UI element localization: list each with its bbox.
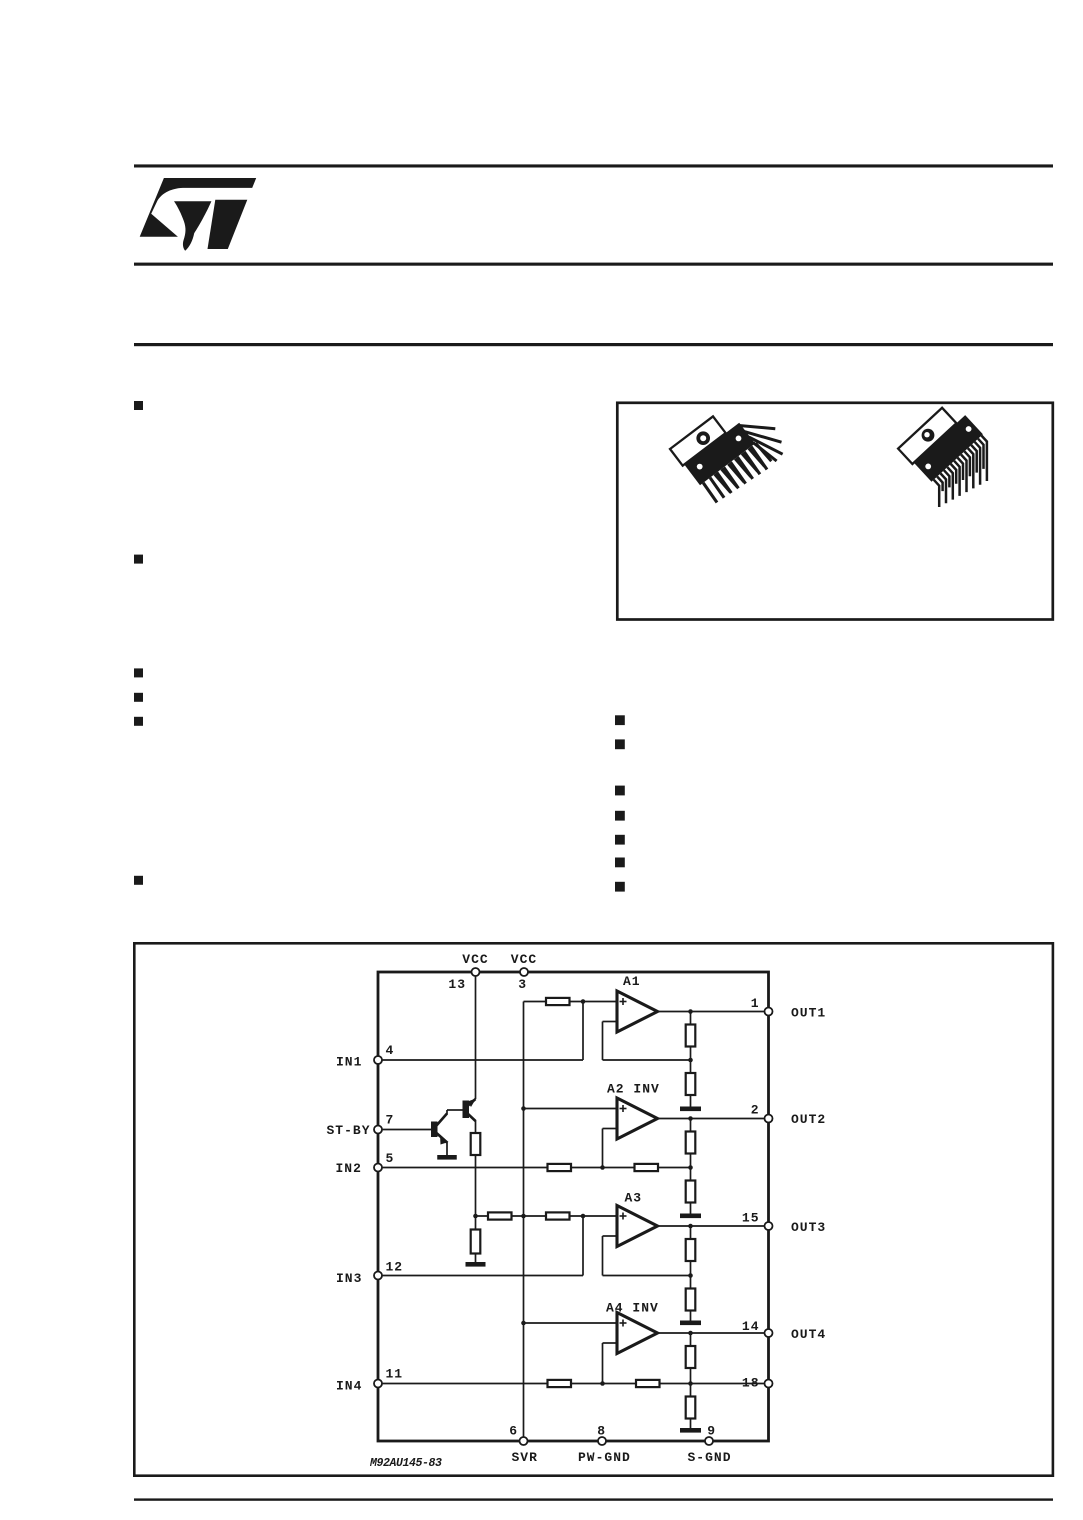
ground Q1 emitter bbox=[437, 1155, 457, 1160]
wire A3 divider bbox=[690, 1226, 692, 1321]
node OUT3 divider top bbox=[688, 1224, 693, 1229]
resistor A1 input bias bbox=[546, 998, 570, 1005]
svg-text:9: 9 bbox=[707, 1424, 716, 1439]
wire Q2 collector bbox=[468, 1114, 476, 1122]
bullet right 7 bbox=[615, 882, 625, 892]
svg-text:IN4: IN4 bbox=[336, 1379, 362, 1394]
terminal SVR pin 6 bbox=[520, 1437, 528, 1445]
wire SVR rail bbox=[523, 1002, 525, 1442]
svg-text:OUT3: OUT3 bbox=[791, 1220, 826, 1235]
terminal OUT2 pin 2 bbox=[765, 1115, 773, 1123]
svg-text:IN2: IN2 bbox=[336, 1161, 362, 1176]
node A2 feedback tap bbox=[688, 1165, 693, 1170]
wire Q2 collector drop bbox=[475, 1120, 477, 1133]
svg-text:PW-GND: PW-GND bbox=[578, 1450, 631, 1465]
terminal IN4 pin 11 bbox=[374, 1380, 382, 1388]
node SVR to A4 bbox=[521, 1321, 526, 1326]
svg-text:VCC: VCC bbox=[511, 952, 537, 967]
svg-text:12: 12 bbox=[386, 1260, 404, 1275]
rule bottom bbox=[134, 1498, 1053, 1500]
resistor A2 feedback upper bbox=[686, 1132, 696, 1154]
terminal VCC pin 3 bbox=[520, 968, 528, 976]
svg-text:VCC: VCC bbox=[462, 952, 488, 967]
svg-text:A2 INV: A2 INV bbox=[607, 1082, 660, 1097]
node A3 feedback tap bbox=[688, 1273, 693, 1278]
terminal PW-GND pin 8 bbox=[598, 1437, 606, 1445]
op-amp A2 bbox=[617, 1098, 658, 1139]
wire IN1 row bbox=[378, 1059, 583, 1061]
wire A4 noninverting row bbox=[524, 1322, 618, 1324]
wire A4 inverting drop bbox=[602, 1343, 604, 1384]
resistor A2 feedback in bbox=[635, 1164, 659, 1171]
resistor bias lower bbox=[471, 1230, 481, 1254]
ground A4 divider bbox=[680, 1428, 701, 1433]
svg-text:11: 11 bbox=[386, 1367, 404, 1382]
wire A3 inverting drop bbox=[602, 1236, 604, 1276]
terminal IN3 pin 12 bbox=[374, 1272, 382, 1280]
resistor A1 feedback lower bbox=[686, 1073, 696, 1095]
wire IN2 row bbox=[378, 1167, 691, 1169]
wire OUT4 row bbox=[658, 1332, 769, 1334]
svg-text:IN3: IN3 bbox=[336, 1271, 362, 1286]
op-amp A1 bbox=[617, 991, 658, 1032]
bullet right 1 bbox=[615, 715, 625, 725]
resistor IN2 series bbox=[548, 1164, 572, 1171]
resistor A2 feedback lower bbox=[686, 1181, 696, 1203]
schematic frame bbox=[134, 943, 1053, 1475]
wire VCC pin13 rail bbox=[475, 972, 477, 1099]
wire Q1 emitter bbox=[446, 1142, 448, 1155]
ST logo T stroke bbox=[208, 200, 248, 249]
wire A4 divider bbox=[690, 1333, 692, 1428]
node OUT4 divider top bbox=[688, 1331, 693, 1336]
bullet left 4 bbox=[134, 693, 143, 702]
package figure box bbox=[617, 403, 1053, 620]
svg-text:14: 14 bbox=[742, 1319, 760, 1334]
ST logo swoosh S bbox=[140, 178, 257, 237]
svg-text:ST-BY: ST-BY bbox=[327, 1123, 371, 1138]
node A1 feedback tap bbox=[688, 1058, 693, 1063]
op-amp A4 bbox=[617, 1313, 658, 1354]
ground bias chain bbox=[466, 1262, 486, 1267]
transistor Q2 bbox=[463, 1101, 470, 1119]
wire bias resistor drop bbox=[475, 1216, 477, 1230]
bullet right 6 bbox=[615, 858, 625, 868]
svg-text:18: 18 bbox=[742, 1376, 760, 1391]
bullet left 2 bbox=[134, 555, 143, 564]
svg-text:OUT4: OUT4 bbox=[791, 1327, 826, 1342]
wire ST-BY base bbox=[378, 1129, 431, 1131]
ground A2 divider bbox=[680, 1214, 701, 1219]
rule top bbox=[134, 164, 1053, 167]
resistor A4 feedback lower bbox=[686, 1397, 696, 1419]
wire A4 inverting stub bbox=[603, 1342, 619, 1344]
wire OUT3 row bbox=[658, 1225, 769, 1227]
svg-text:2: 2 bbox=[751, 1103, 760, 1118]
wire IN3 riser bbox=[582, 1216, 584, 1276]
wire A2 inverting stub bbox=[603, 1128, 619, 1130]
wire A3 inverting stub bbox=[603, 1235, 619, 1237]
wire A2 inverting drop bbox=[602, 1129, 604, 1168]
node OUT2 divider top bbox=[688, 1116, 693, 1121]
resistor A3 feedback upper bbox=[686, 1239, 696, 1261]
svg-text:SVR: SVR bbox=[512, 1450, 538, 1465]
svg-text:1: 1 bbox=[751, 996, 760, 1011]
terminal OUT4 pin 14 bbox=[765, 1329, 773, 1337]
node A4 feedback tap bbox=[688, 1381, 693, 1386]
Multiwatt15 package bent pins bbox=[898, 408, 987, 507]
svg-text:M92AU145-83: M92AU145-83 bbox=[369, 1457, 442, 1470]
wire OUT2 row bbox=[658, 1118, 769, 1120]
svg-text:A3: A3 bbox=[625, 1191, 643, 1206]
node SVR to A2 bbox=[521, 1106, 526, 1111]
resistor bias to SVR bbox=[488, 1212, 512, 1219]
resistor A4 feedback upper bbox=[686, 1346, 696, 1368]
wire A1 tap link bbox=[603, 1059, 691, 1061]
bullet right 4 bbox=[615, 811, 625, 821]
wire OUT1 row bbox=[658, 1011, 769, 1013]
node A1 noninverting input bbox=[581, 999, 586, 1004]
bullet left 3 bbox=[134, 668, 143, 677]
svg-text:8: 8 bbox=[597, 1424, 606, 1439]
bullet right 3 bbox=[615, 786, 625, 796]
transistor Q1 emitter bbox=[437, 1133, 448, 1143]
wire A1 inverting stub bbox=[603, 1021, 619, 1023]
resistor IN4 series bbox=[548, 1380, 572, 1387]
node A3 noninverting input bbox=[581, 1214, 586, 1219]
svg-text:OUT1: OUT1 bbox=[791, 1006, 826, 1021]
rule below logo bbox=[134, 263, 1053, 266]
svg-text:5: 5 bbox=[386, 1151, 395, 1166]
terminal OUT1 pin 1 bbox=[765, 1008, 773, 1016]
svg-text:OUT2: OUT2 bbox=[791, 1112, 826, 1127]
node bias rail tee bbox=[473, 1214, 478, 1219]
wire bias ground link bbox=[475, 1254, 477, 1263]
node A2 inverting bbox=[600, 1165, 605, 1170]
node OUT1 divider top bbox=[688, 1009, 693, 1014]
bullet left 1 bbox=[134, 401, 143, 410]
bullet left 6 bbox=[134, 876, 143, 885]
resistor A3 feedback lower bbox=[686, 1289, 696, 1311]
amplifier internal block outline bbox=[378, 972, 769, 1441]
resistor A4 feedback in bbox=[636, 1380, 660, 1387]
transistor Q1 bbox=[431, 1122, 438, 1138]
wire A1 divider bbox=[690, 1012, 692, 1107]
wire IN1 riser bbox=[582, 1002, 584, 1061]
wire bias rail bbox=[475, 1155, 477, 1216]
terminal IN1 pin 4 bbox=[374, 1056, 382, 1064]
terminal IN2 pin 5 bbox=[374, 1164, 382, 1172]
svg-text:3: 3 bbox=[518, 977, 527, 992]
bullet left 5 bbox=[134, 717, 143, 726]
op-amp A3 bbox=[617, 1206, 658, 1247]
bullet right 2 bbox=[615, 739, 625, 749]
svg-text:4: 4 bbox=[386, 1043, 395, 1058]
wire Q1 collector to Q2 base bbox=[447, 1109, 463, 1111]
resistor A3 input bias bbox=[546, 1212, 570, 1219]
wire A2 noninverting row bbox=[524, 1108, 618, 1110]
ground A1 divider bbox=[680, 1107, 701, 1112]
ground A3 divider bbox=[680, 1321, 701, 1326]
terminal VCC pin 13 bbox=[472, 968, 480, 976]
svg-text:IN1: IN1 bbox=[336, 1055, 362, 1070]
svg-text:15: 15 bbox=[742, 1211, 760, 1226]
resistor Q2 collector bbox=[471, 1133, 481, 1155]
wire A1 bias row bbox=[524, 1001, 618, 1003]
node A4 inverting bbox=[600, 1381, 605, 1386]
terminal ST-BY pin 7 bbox=[374, 1126, 382, 1134]
node SVR to A3 bbox=[521, 1214, 526, 1219]
ST logo S center bbox=[174, 201, 211, 251]
svg-text:S-GND: S-GND bbox=[688, 1450, 732, 1465]
rule section bbox=[134, 343, 1053, 346]
terminal OUT3 pin 15 bbox=[765, 1222, 773, 1230]
wire A1 inverting drop bbox=[602, 1022, 604, 1061]
wire A3 bias row bbox=[476, 1215, 618, 1217]
wire IN3 row bbox=[378, 1275, 583, 1277]
resistor A1 feedback upper bbox=[686, 1025, 696, 1047]
svg-text:7: 7 bbox=[386, 1113, 395, 1128]
svg-text:A4 INV: A4 INV bbox=[606, 1301, 659, 1316]
Multiwatt15 package vertical pins bbox=[670, 416, 783, 502]
terminal S-GND pin 9 bbox=[705, 1437, 713, 1445]
wire IN4 row bbox=[378, 1383, 769, 1385]
svg-text:A1: A1 bbox=[623, 974, 641, 989]
wire A3 tap link bbox=[603, 1275, 691, 1277]
terminal pin 18 bbox=[765, 1380, 773, 1388]
svg-text:6: 6 bbox=[509, 1424, 518, 1439]
svg-text:13: 13 bbox=[448, 977, 466, 992]
bullet right 5 bbox=[615, 835, 625, 845]
wire A2 divider bbox=[690, 1119, 692, 1214]
